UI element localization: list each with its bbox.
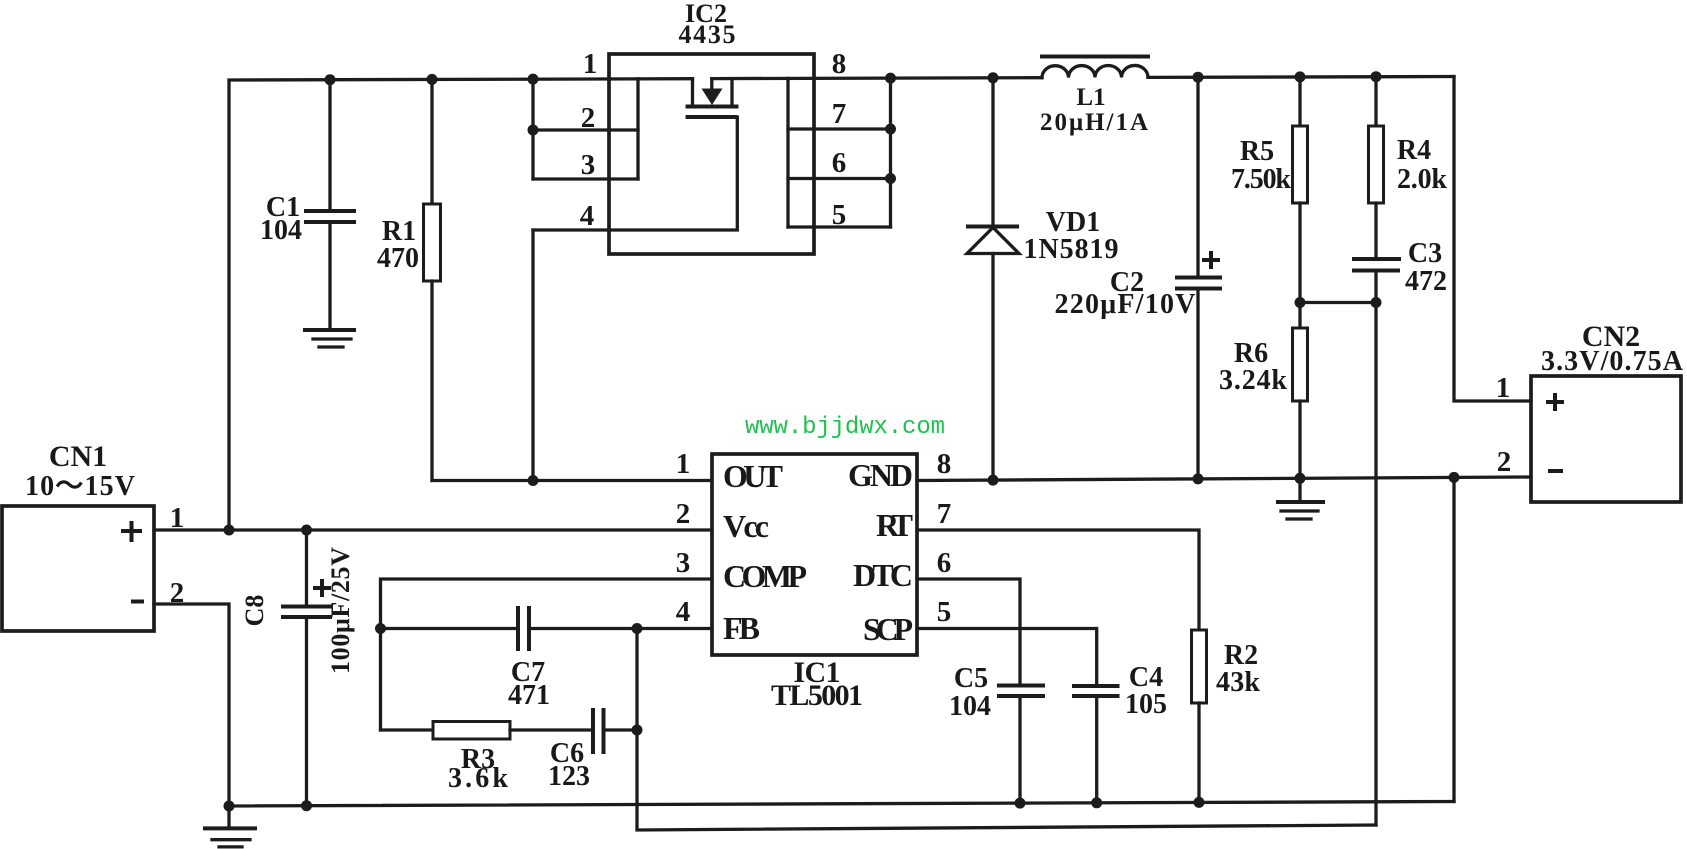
junction dot gnd rail / bottom return: [1449, 472, 1460, 483]
junction dot bottom rail / C8: [301, 800, 312, 811]
svg-text:43k: 43k: [1216, 667, 1260, 698]
wire: top supply rail left segment: [229, 79, 693, 530]
connector CN1: [2, 440, 184, 631]
svg-text:RT: RT: [876, 507, 913, 543]
svg-text:2: 2: [581, 102, 596, 134]
transistor Q inside IC2: internal source bus: [636, 79, 639, 179]
junction dot FB node: [632, 623, 643, 634]
junction dot gnd rail / R6: [1295, 473, 1306, 484]
junction dot Vcc / left rail: [224, 525, 235, 536]
svg-text:OUT: OUT: [723, 458, 783, 494]
capacitor C8 electrolytic: [240, 530, 355, 806]
capacitor C4: [1072, 662, 1167, 803]
junction dot bottom rail / CN1 gnd: [224, 801, 235, 812]
svg-text:L1: L1: [1076, 84, 1105, 111]
diode VD1 1N5819: [966, 78, 1119, 480]
wire: top supply rail mid segment (IC2 drain side to L1): [712, 76, 1042, 80]
svg-text:3.3V/0.75A: 3.3V/0.75A: [1541, 346, 1684, 377]
wire: CN1 pin2 down to ground rail: [154, 604, 229, 806]
svg-text:1N5819: 1N5819: [1024, 234, 1119, 265]
junction dot R3-C6 / FB vertical: [632, 725, 643, 736]
svg-text:10～15V: 10～15V: [25, 471, 135, 502]
svg-text:3.24k: 3.24k: [1219, 365, 1287, 396]
svg-text:7.50k: 7.50k: [1231, 164, 1291, 195]
svg-text:3: 3: [581, 149, 596, 181]
ground (under R6): [1276, 502, 1325, 519]
junction dot C3/feedback node: [1371, 297, 1382, 308]
svg-text:104: 104: [949, 691, 991, 722]
svg-text:4435: 4435: [679, 20, 736, 49]
transistor Q inside IC2: MOSFET symbol: [533, 79, 739, 230]
junction dot drain bus / pin7: [885, 124, 896, 135]
svg-text:6: 6: [937, 547, 952, 579]
junction dot drain bus / pin6: [885, 173, 896, 184]
svg-text:2: 2: [676, 498, 691, 530]
wire: IC1 DTC pin6 to C5: [917, 579, 1020, 686]
junction dot top rail / IC2 source bus: [528, 74, 539, 85]
svg-text:3: 3: [676, 547, 691, 579]
svg-text:2.0k: 2.0k: [1397, 164, 1447, 195]
capacitor C2 electrolytic: [1055, 77, 1223, 479]
junction dot bottom rail / R2: [1194, 797, 1205, 808]
wire: IC1 COMP pin3: [381, 579, 713, 730]
resistor R5: [1231, 77, 1308, 328]
svg-text:105: 105: [1125, 689, 1167, 720]
capacitor C1: [260, 80, 356, 330]
junction dot gnd rail / VD1: [988, 475, 999, 486]
watermark www.bjjdwx.com: [745, 414, 945, 441]
svg-text:220μF/10V: 220μF/10V: [1055, 289, 1196, 320]
svg-text:1: 1: [583, 48, 598, 80]
svg-text:7: 7: [937, 498, 952, 530]
svg-text:2: 2: [1497, 446, 1512, 478]
svg-text:COMP: COMP: [723, 558, 807, 594]
junction dot top rail / R1: [427, 74, 438, 85]
svg-text:C8: C8: [240, 595, 269, 627]
wire: top supply rail right segment (L1 to output corner): [1148, 75, 1454, 79]
resistor R4: [1369, 77, 1448, 259]
node: IC2 drain outer bus: [889, 78, 892, 227]
svg-text:6: 6: [832, 147, 847, 179]
capacitor C7: [381, 606, 713, 711]
MOSFET IC2 (Si4435 package outline): [609, 0, 814, 254]
svg-text:1: 1: [676, 448, 691, 480]
junction dot top rail / C1: [325, 74, 336, 85]
svg-text:104: 104: [260, 215, 302, 246]
svg-text:7: 7: [832, 98, 847, 130]
node: IC2 source bus (pins 1-2-3 tie): [533, 79, 638, 179]
junction dot drain bus / top rail: [885, 73, 896, 84]
wire: CN1 pin1 to IC1 Vcc pin2: [154, 528, 712, 531]
resistor R1: [377, 79, 441, 480]
svg-text:470: 470: [377, 243, 419, 274]
svg-text:FB: FB: [723, 610, 760, 646]
svg-text:4: 4: [580, 200, 595, 232]
junction dot top rail / C2: [1193, 72, 1204, 83]
wire: bottom ground rail: [229, 802, 1454, 807]
svg-text:4: 4: [676, 596, 691, 628]
svg-text:DTC: DTC: [853, 557, 913, 593]
svg-text:C5: C5: [954, 663, 988, 694]
svg-text:Vcc: Vcc: [723, 508, 769, 544]
capacitor C6: [548, 708, 637, 792]
junction dot bottom rail / C4: [1091, 797, 1102, 808]
svg-text:CN1: CN1: [49, 440, 107, 473]
junction dot COMP branch / C7: [375, 623, 386, 634]
svg-text:SCP: SCP: [863, 611, 913, 647]
wire: IC2 gate (pin 4) down to IC1 OUT: [531, 230, 534, 481]
junction dot OUT / IC2 gate: [528, 475, 539, 486]
junction dot top rail / R4: [1371, 71, 1382, 82]
junction dot gnd rail / C2: [1193, 473, 1204, 484]
svg-text:20μH/1A: 20μH/1A: [1040, 109, 1148, 136]
svg-text:100μF/25V: 100μF/25V: [326, 547, 355, 674]
ground (under CN1 return): [203, 806, 257, 847]
svg-text:TL5001: TL5001: [771, 679, 863, 712]
svg-text:471: 471: [508, 680, 550, 711]
junction dot IC2 pin2: [528, 125, 539, 136]
junction dot R5-R6 node: [1295, 297, 1306, 308]
wire: IC1 OUT pin1: [432, 479, 712, 482]
wire: R5/R6 node to C3 bottom: [1300, 301, 1376, 304]
wire: ground rail from IC1 GND to CN2 pin2: [917, 477, 1531, 481]
svg-text:3.6k: 3.6k: [448, 763, 508, 794]
svg-text:R4: R4: [1397, 135, 1431, 166]
ground (under C1): [303, 330, 356, 347]
wire: IC1 RT pin7 to R2: [917, 530, 1199, 630]
svg-text:www.bjjdwx.com: www.bjjdwx.com: [745, 414, 945, 441]
resistor R2: [1192, 630, 1261, 802]
inductor L1: [1040, 57, 1150, 137]
wire: ground rail down to bottom rail: [1452, 477, 1455, 801]
wire: output corner down to CN2 pin1: [1454, 77, 1531, 402]
connector CN2: [1496, 320, 1684, 502]
pin number labels IC1: [676, 448, 952, 628]
node: IC2 drain internal bus (pins 5-8): [788, 78, 891, 227]
svg-text:5: 5: [832, 199, 847, 231]
svg-text:R5: R5: [1240, 136, 1274, 167]
capacitor C3: [1352, 238, 1447, 825]
wire: FB node down to sense rail: [637, 629, 1376, 831]
svg-text:5: 5: [937, 596, 952, 628]
resistor R3: [381, 722, 594, 795]
junction dot top rail / R5: [1295, 71, 1306, 82]
svg-text:8: 8: [832, 48, 847, 80]
op-amp controller IC1 TL5001 box: [712, 454, 917, 712]
svg-text:1: 1: [1496, 372, 1511, 404]
junction dot bottom rail / C5: [1015, 798, 1026, 809]
svg-text:GND: GND: [848, 457, 913, 493]
svg-text:8: 8: [937, 448, 952, 480]
junction dot Vcc / C8: [301, 525, 312, 536]
capacitor C5: [949, 663, 1045, 803]
wire: IC1 SCP pin5 to C4: [917, 629, 1097, 687]
resistor R6: [1219, 328, 1308, 502]
svg-text:472: 472: [1405, 266, 1447, 297]
svg-text:C3: C3: [1408, 238, 1442, 269]
junction dot top rail / VD1: [988, 72, 999, 83]
pin number labels IC2: [580, 48, 847, 232]
svg-text:123: 123: [548, 761, 590, 792]
